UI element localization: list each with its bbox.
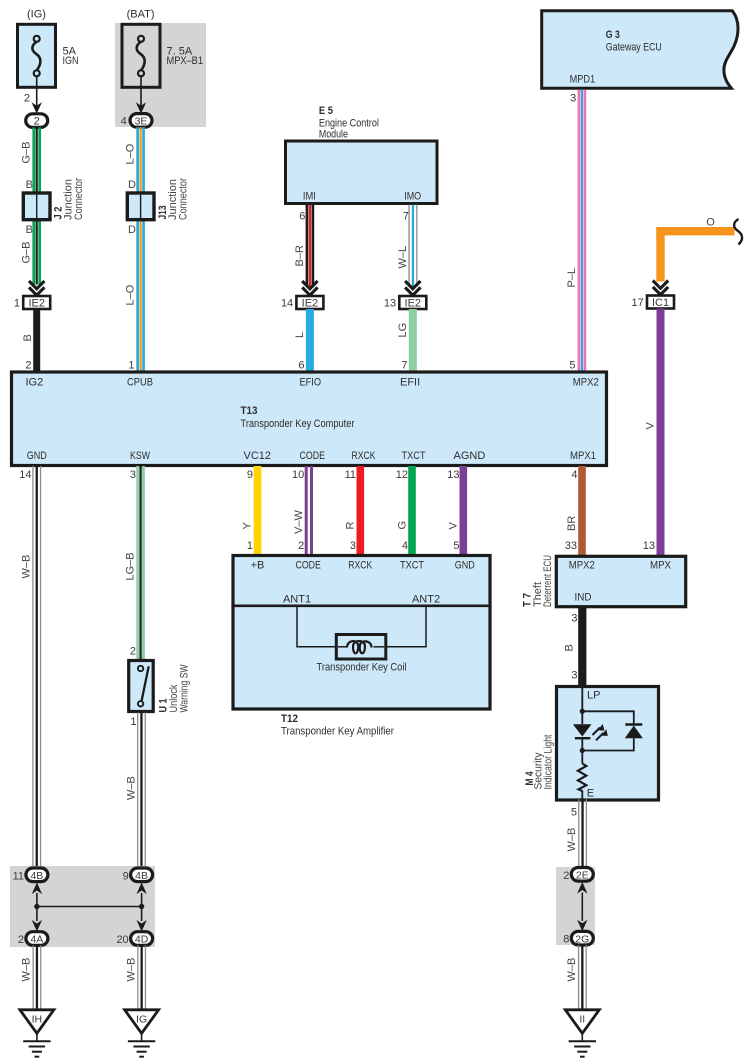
amplifier T12 Transponder Key Amplifier [231, 556, 491, 738]
svg-text:IG2: IG2 [26, 377, 44, 389]
arrow up from link into 4B pin 11 [32, 883, 42, 907]
resistor in M4 [578, 751, 586, 800]
connector 2G pin 8 (oval) [563, 931, 593, 945]
svg-text:Warning SW: Warning SW [179, 664, 191, 712]
wire W-B from U1 to connector 4B pin 9 [126, 713, 146, 869]
svg-text:W–B: W–B [566, 958, 578, 982]
svg-text:3: 3 [350, 540, 356, 552]
svg-text:3: 3 [571, 669, 577, 681]
svg-text:GND: GND [27, 450, 47, 462]
svg-text:2: 2 [563, 870, 569, 882]
svg-text:33: 33 [565, 540, 577, 552]
gray background connector block 4B/4A/4D [10, 866, 155, 947]
svg-text:MPX2: MPX2 [569, 559, 595, 571]
svg-text:6: 6 [298, 360, 304, 372]
svg-text:MPX1: MPX1 [570, 450, 596, 462]
wire V-W from T13 CODE to T12 CODE [292, 466, 313, 555]
fuse (BAT) 7.5A MPX-B1 [122, 9, 203, 88]
svg-text:B: B [564, 644, 576, 651]
arrow up below 2E [577, 882, 587, 921]
svg-text:9: 9 [123, 870, 129, 882]
svg-text:EFII: EFII [400, 377, 420, 389]
svg-text:W–B: W–B [21, 958, 33, 982]
wire B-R from E5 IMI [294, 205, 314, 287]
svg-text:Gateway ECU: Gateway ECU [606, 42, 662, 54]
svg-text:L–O: L–O [125, 284, 137, 305]
svg-text:2: 2 [34, 116, 40, 128]
wire O (orange) from off-page to IC1 [656, 217, 734, 282]
fuse (IG) 5A IGN [18, 9, 79, 88]
svg-text:ANT1: ANT1 [283, 594, 311, 606]
svg-text:7: 7 [401, 360, 407, 372]
svg-text:B: B [22, 334, 34, 341]
svg-text:IE2: IE2 [405, 298, 422, 310]
svg-text:LP: LP [587, 690, 600, 702]
connector IE2 pin 14 [281, 296, 323, 310]
svg-text:13: 13 [384, 298, 396, 310]
wire V from T13 AGND to T12 GND [447, 466, 467, 555]
svg-text:13: 13 [447, 469, 459, 481]
gray background behind BAT fuse [115, 23, 206, 127]
svg-text:8: 8 [563, 934, 569, 946]
arrow down into 4A [32, 907, 42, 932]
svg-text:W–B: W–B [126, 776, 138, 800]
svg-text:AGND: AGND [454, 450, 486, 462]
svg-text:7: 7 [403, 211, 409, 223]
arrow down into 2G [577, 920, 587, 932]
svg-text:2: 2 [130, 646, 136, 658]
svg-text:RXCK: RXCK [348, 560, 373, 572]
wire B from IE2 to T13 IG2 [22, 309, 40, 372]
svg-text:5: 5 [569, 360, 575, 372]
svg-text:T12: T12 [281, 713, 298, 725]
switch U1 Unlock Warning SW [129, 661, 191, 713]
diode parallel to LED in M4 [580, 711, 643, 753]
arrow into connector 2 [32, 102, 42, 114]
svg-text:LG: LG [397, 323, 409, 338]
wire W-B from T13 GND to connector 4B [19, 466, 41, 868]
svg-text:2E: 2E [576, 869, 589, 881]
svg-text:V: V [448, 522, 460, 530]
connector 4A pin 2 (oval) [18, 932, 48, 946]
connector IE2 pin 13 [384, 296, 426, 310]
lamp M4 Security Indicator Light [524, 687, 659, 801]
svg-text:R: R [345, 522, 357, 530]
LED (security indicator) in M4 [573, 724, 608, 751]
svg-text:10: 10 [292, 469, 304, 481]
svg-text:TXCT: TXCT [400, 560, 424, 572]
svg-text:3E: 3E [135, 116, 148, 128]
svg-text:KSW: KSW [130, 450, 150, 462]
svg-text:E: E [587, 788, 594, 800]
wire L from IE2 to T13 EFIO [294, 309, 314, 372]
svg-text:TXCT: TXCT [402, 450, 426, 462]
svg-text:G 3: G 3 [606, 29, 620, 41]
svg-text:20: 20 [116, 934, 128, 946]
svg-text:9: 9 [247, 469, 253, 481]
svg-text:2: 2 [25, 360, 31, 372]
svg-text:12: 12 [396, 469, 408, 481]
arrow (double chevron) into IE2 pin 13 [405, 281, 420, 295]
svg-text:1: 1 [128, 360, 134, 372]
svg-text:Connector: Connector [178, 178, 190, 220]
arrow (double chevron) into IC1 [653, 281, 668, 295]
wire W-B from 2G to ground II [566, 945, 587, 1010]
svg-text:IND: IND [575, 592, 592, 604]
arrow (double chevron) into IE2 pin 1 [29, 281, 44, 295]
svg-text:(IG): (IG) [27, 9, 46, 21]
svg-text:3: 3 [130, 469, 136, 481]
svg-text:3: 3 [570, 93, 576, 105]
wire W-B from M4 E to connector 2E [566, 799, 587, 868]
break symbol on wire O [734, 219, 742, 245]
svg-text:Module: Module [319, 128, 348, 140]
connector 4B pin 9 (oval) [123, 868, 153, 882]
svg-text:4B: 4B [30, 870, 43, 882]
svg-text:IMI: IMI [303, 191, 316, 203]
svg-text:CPUB: CPUB [127, 377, 153, 389]
wire ANT1 to coil [297, 607, 336, 647]
svg-text:2: 2 [24, 93, 30, 105]
wire R from T13 RXCK to T12 RXCK [345, 466, 365, 555]
svg-text:IE2: IE2 [28, 298, 45, 310]
wire W-B from 4A to ground IH [21, 945, 42, 1010]
ECU T7 Theft Deterrent ECU [522, 555, 686, 607]
wire B from T7 IND to M4 LP [564, 608, 587, 687]
svg-text:13: 13 [643, 540, 655, 552]
svg-text:1: 1 [247, 540, 253, 552]
svg-text:GND: GND [455, 560, 475, 572]
svg-text:14: 14 [281, 298, 293, 310]
svg-text:4D: 4D [135, 934, 149, 946]
ground IH [20, 1010, 54, 1057]
svg-text:4: 4 [121, 116, 127, 128]
wire LG from IE2 to T13 EFII [397, 309, 417, 372]
svg-text:4: 4 [571, 469, 577, 481]
svg-text:B–R: B–R [294, 245, 306, 266]
svg-text:MPD1: MPD1 [570, 74, 596, 86]
svg-text:BR: BR [566, 516, 578, 531]
svg-text:+B: +B [251, 560, 265, 572]
connector IE2 pin 1 [14, 296, 50, 310]
svg-text:EFIO: EFIO [300, 377, 322, 389]
svg-text:RXCK: RXCK [352, 450, 377, 462]
svg-text:G–B: G–B [21, 141, 33, 163]
wire fuse BAT to connector 3E [140, 76, 142, 108]
wire G from T13 TXCT to T12 TXCT [396, 466, 416, 555]
svg-text:1: 1 [130, 716, 136, 728]
svg-text:MPX2: MPX2 [573, 377, 599, 389]
wire fuse IG to connector 2 [24, 76, 37, 108]
svg-text:IE2: IE2 [302, 298, 319, 310]
gray background connector block 2E/2G [556, 867, 595, 945]
svg-text:2: 2 [18, 934, 24, 946]
svg-text:W–B: W–B [21, 555, 33, 579]
svg-text:LG–B: LG–B [125, 552, 137, 580]
wire LG-B from T13 KSW to U1 [125, 466, 145, 660]
svg-text:T13: T13 [241, 405, 258, 417]
svg-text:L–O: L–O [125, 143, 137, 164]
svg-text:CODE: CODE [295, 560, 321, 572]
LED branch wire in M4 [580, 687, 585, 724]
svg-text:3: 3 [571, 613, 577, 625]
connector 2E pin 2 (oval) [563, 868, 593, 882]
svg-text:E 5: E 5 [319, 105, 333, 117]
svg-text:Transponder Key Computer: Transponder Key Computer [241, 418, 355, 430]
svg-text:1: 1 [14, 298, 20, 310]
svg-text:IMO: IMO [404, 191, 421, 203]
svg-text:11: 11 [13, 870, 24, 882]
ECU E5 Engine Control Module [286, 105, 438, 204]
svg-text:O: O [706, 217, 715, 229]
wire V from IC1 to T7 MPX [643, 309, 665, 557]
svg-text:11: 11 [345, 469, 356, 481]
svg-text:W–L: W–L [397, 246, 409, 269]
wire ANT2 to coil [386, 607, 426, 647]
wire BR from T13 MPX1 to T7 MPX2 [565, 466, 586, 556]
arrow up from link into 4B pin 9 [136, 883, 146, 907]
svg-text:P–L: P–L [566, 268, 578, 288]
svg-text:IC1: IC1 [652, 297, 669, 309]
ground II [565, 1010, 599, 1057]
svg-text:2: 2 [298, 540, 304, 552]
junction connector J13 [127, 178, 189, 220]
svg-text:(BAT): (BAT) [127, 9, 155, 21]
svg-text:G–B: G–B [21, 241, 33, 263]
connector 4D pin 20 (oval) [116, 932, 152, 946]
svg-text:Indicator Light: Indicator Light [543, 735, 555, 790]
svg-text:V: V [645, 422, 657, 430]
ECU G3 Gateway ECU [542, 11, 738, 89]
wire P-L from G3 MPD1 to T13 MPX2 [566, 90, 586, 372]
svg-text:5: 5 [571, 807, 577, 819]
svg-text:Transponder Key Coil: Transponder Key Coil [317, 662, 407, 674]
svg-text:2G: 2G [575, 933, 589, 945]
svg-text:IH: IH [32, 1014, 43, 1026]
svg-text:Deterrent ECU: Deterrent ECU [542, 555, 554, 607]
svg-text:6: 6 [299, 211, 305, 223]
ECU T13 Transponder Key Computer [12, 372, 607, 466]
svg-text:VC12: VC12 [244, 450, 272, 462]
svg-text:IG: IG [136, 1014, 147, 1026]
svg-text:B: B [26, 224, 33, 236]
svg-text:G: G [397, 521, 409, 530]
ground IG [125, 1010, 159, 1057]
svg-text:L: L [294, 332, 306, 338]
svg-text:4A: 4A [30, 934, 43, 946]
svg-text:V–W: V–W [293, 510, 305, 534]
svg-text:5: 5 [453, 540, 459, 552]
svg-text:Transponder Key Amplifier: Transponder Key Amplifier [281, 725, 394, 737]
link wire between grounds with junction nodes [34, 904, 144, 909]
svg-text:IGN: IGN [63, 55, 79, 67]
svg-text:Y: Y [242, 522, 254, 530]
svg-text:4: 4 [402, 540, 408, 552]
wire W-B from 4D to ground IG [126, 945, 147, 1010]
svg-text:D: D [128, 224, 136, 236]
arrow down into 4D [136, 907, 146, 932]
svg-text:W–B: W–B [126, 958, 138, 982]
svg-text:14: 14 [19, 469, 31, 481]
svg-text:Connector: Connector [73, 178, 85, 220]
junction connector J2 [23, 178, 85, 220]
wire Y from T13 VC12 to T12 +B [242, 466, 262, 555]
wire W-L from E5 IMO [397, 205, 418, 287]
svg-text:ANT2: ANT2 [412, 594, 440, 606]
wire G-B from connector 2 to IE2 [21, 128, 42, 285]
svg-text:MPX–B1: MPX–B1 [167, 55, 204, 67]
wire L-O from connector 3E to T13 CPUB [125, 127, 145, 372]
transponder key coil [317, 635, 407, 674]
connector 2 (oval) [26, 114, 48, 128]
svg-text:MPX: MPX [650, 559, 672, 571]
svg-text:CODE: CODE [300, 450, 326, 462]
arrow (double chevron) into IE2 pin 14 [302, 281, 317, 295]
svg-text:B: B [26, 179, 33, 191]
svg-text:W–B: W–B [566, 828, 578, 852]
svg-text:17: 17 [632, 297, 644, 309]
svg-text:D: D [128, 179, 136, 191]
svg-text:4B: 4B [135, 870, 148, 882]
connector 4B pin 11 (oval) [13, 868, 48, 882]
svg-text:II: II [579, 1014, 585, 1026]
connector IC1 pin 17 [632, 296, 674, 310]
connector 3E (oval) [121, 114, 152, 128]
arrow into connector 3E [136, 102, 146, 114]
